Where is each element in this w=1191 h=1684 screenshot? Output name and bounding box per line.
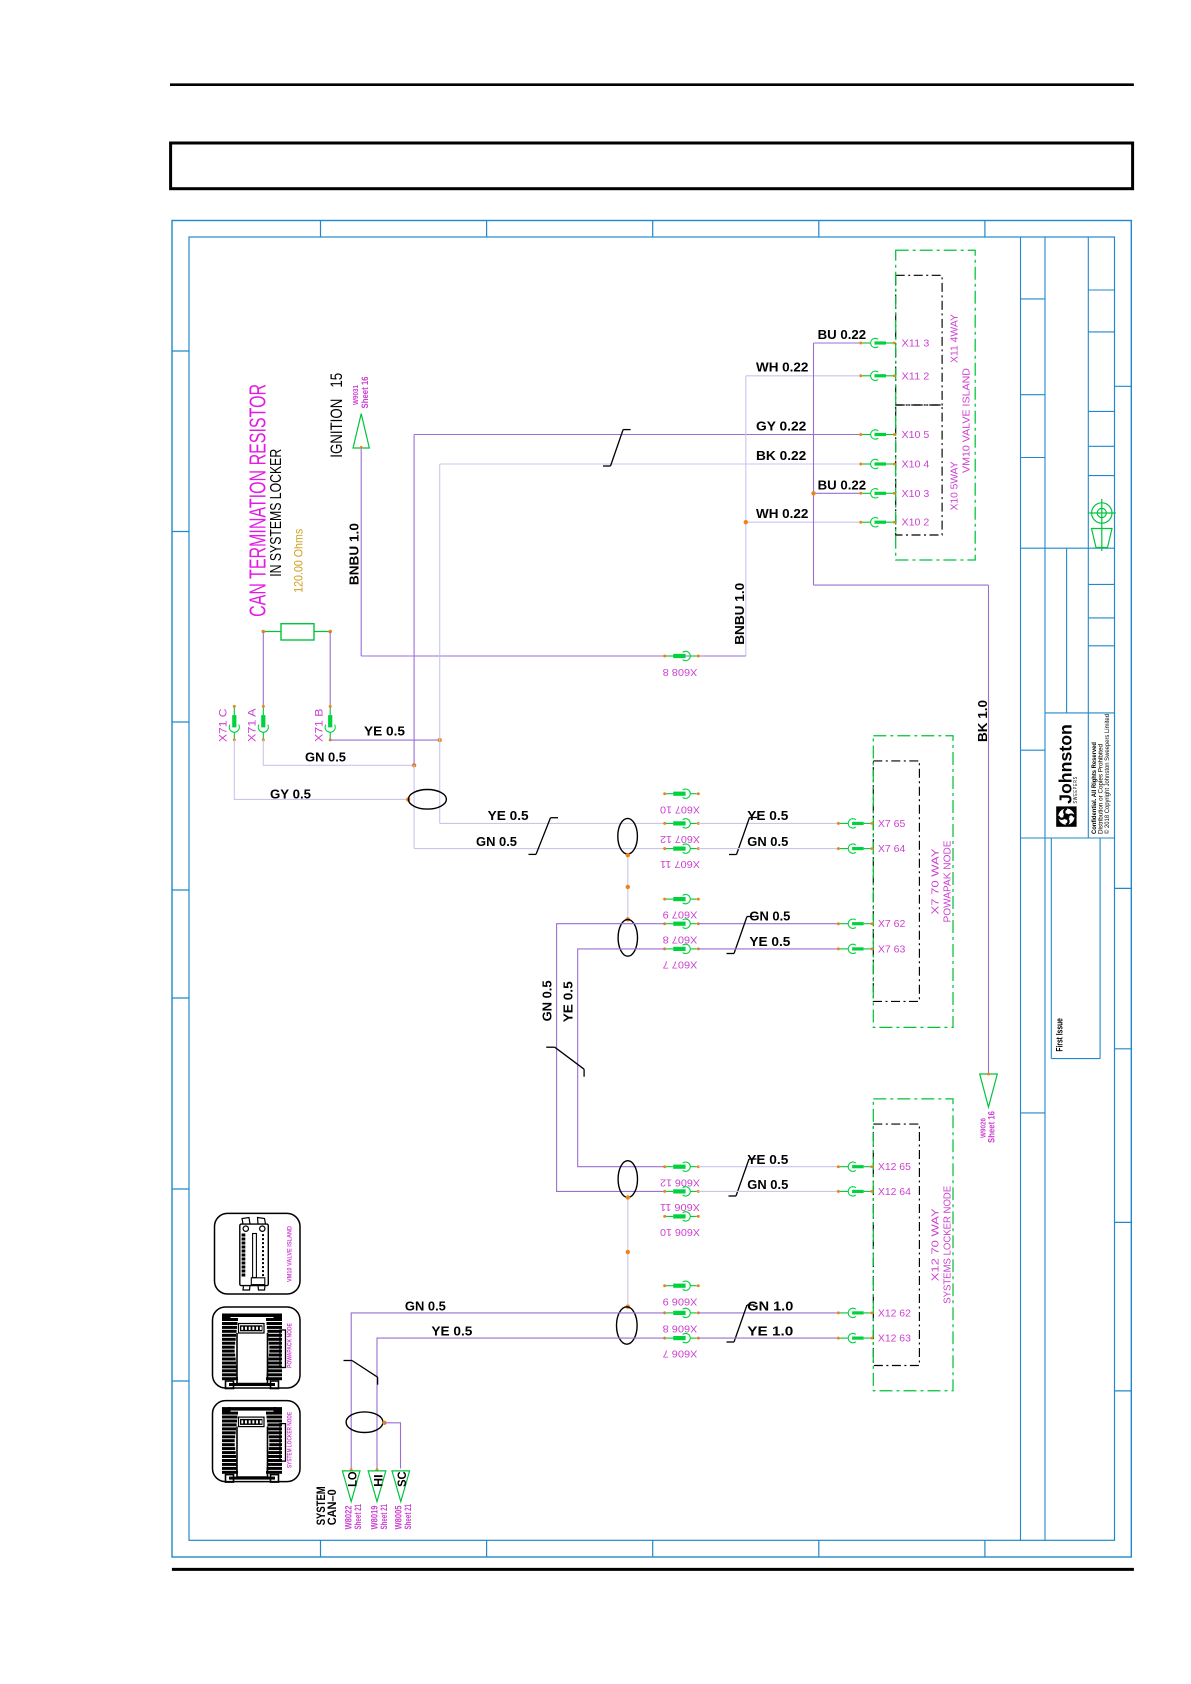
wire GN trunk X7 62 to X12 64 <box>557 924 665 1192</box>
svg-text:YE 0.5: YE 0.5 <box>747 809 788 823</box>
junction dot ignition arrow <box>360 446 363 449</box>
pin X71 A <box>262 705 265 708</box>
wire BU 0.22 to X11 3 <box>814 342 860 344</box>
resistor R termination 120 ohm <box>281 624 314 640</box>
svg-text:GY 0.5: GY 0.5 <box>270 787 311 801</box>
Johnston logo <box>1056 724 1079 827</box>
svg-text:X10 5WAY: X10 5WAY <box>949 461 961 510</box>
shield link E4-E5 <box>627 1198 629 1307</box>
svg-text:YE 0.5: YE 0.5 <box>488 809 529 823</box>
junction dot E6 right <box>382 1421 386 1425</box>
junction dot resistor left <box>262 630 266 634</box>
svg-text:VM10 VALVE ISLAND: VM10 VALVE ISLAND <box>961 368 973 473</box>
svg-text:X10 3: X10 3 <box>902 488 930 500</box>
sheet arrow LO W8022 <box>342 1471 360 1502</box>
svg-text:YE 1.0: YE 1.0 <box>747 1325 793 1339</box>
wire X71 B to resistor <box>329 632 331 706</box>
break symbol at X7 62/63 labels <box>747 916 755 918</box>
junction dot E3 top <box>626 917 630 921</box>
svg-text:WH 0.22: WH 0.22 <box>756 361 808 375</box>
svg-text:SC: SC <box>397 1471 409 1487</box>
svg-text:YE 0.5: YE 0.5 <box>364 724 405 738</box>
junction dot arrow W9026 <box>987 1073 990 1076</box>
svg-text:GY 0.22: GY 0.22 <box>756 419 806 433</box>
splice X607 10 stub <box>663 792 666 795</box>
svg-text:YE 0.5: YE 0.5 <box>431 1325 472 1339</box>
svg-text:Sheet 16: Sheet 16 <box>987 1111 997 1143</box>
svg-text:BU 0.22: BU 0.22 <box>818 328 867 342</box>
svg-text:GN 0.5: GN 0.5 <box>747 835 788 849</box>
svg-text:X71 C: X71 C <box>218 708 230 742</box>
label W8005 Sheet 21 <box>393 1504 413 1530</box>
pin X7 63 <box>837 947 840 950</box>
wire GN 0.5 to X607 11 <box>414 848 665 850</box>
svg-text:W8005: W8005 <box>393 1505 403 1529</box>
resistor lead right <box>314 631 330 633</box>
svg-text:X608 8: X608 8 <box>662 666 697 678</box>
svg-text:LO: LO <box>348 1471 360 1487</box>
svg-text:W9031: W9031 <box>351 385 360 405</box>
svg-text:GN 0.5: GN 0.5 <box>749 910 790 924</box>
svg-text:SYSTEM LOCKER NODE: SYSTEM LOCKER NODE <box>287 1412 294 1468</box>
junction dot resistor right <box>328 630 332 634</box>
svg-text:X12 70 WAY: X12 70 WAY <box>930 1208 942 1281</box>
label W9031 Sheet 16 <box>351 376 370 408</box>
break symbol on GY/BK wires <box>623 429 631 431</box>
pin X7 64 <box>837 847 840 850</box>
wire YE 0.5 to X607 12 <box>440 822 665 824</box>
pin X10 5 <box>859 433 862 436</box>
wire YE X606 12 to X12 65 <box>698 1166 839 1168</box>
svg-text:X606 11: X606 11 <box>660 1201 700 1213</box>
splice X606 7 <box>663 1337 666 1340</box>
svg-text:W8019: W8019 <box>370 1505 380 1529</box>
resistor lead left <box>263 631 281 633</box>
svg-text:X607 12: X607 12 <box>660 833 700 845</box>
pin X10 3 <box>859 492 862 495</box>
wire BU to BK 1.0 run <box>814 584 989 586</box>
svg-text:GN 0.5: GN 0.5 <box>476 835 517 849</box>
pin X71 B <box>329 705 332 708</box>
svg-text:120.00 Ohms: 120.00 Ohms <box>291 529 305 593</box>
splice X606 10 stub <box>663 1215 666 1218</box>
wire GN 1.0 X606 8 to X12 62 <box>698 1312 839 1314</box>
svg-text:CAN–0: CAN–0 <box>325 1489 339 1525</box>
svg-text:© 2018 Copyright Johnston Swee: © 2018 Copyright Johnston Sweepers Limit… <box>1103 714 1111 834</box>
break symbol bottom pair <box>344 1360 353 1362</box>
svg-text:BNBU 1.0: BNBU 1.0 <box>347 523 361 585</box>
connector X11 4WAY box <box>896 275 942 405</box>
junction dot E4 bottom <box>626 1195 630 1199</box>
junction dot WH/X10 2 <box>744 520 748 524</box>
connector X7 powapak node outline <box>873 736 953 1028</box>
shield link E2-E3 <box>627 855 629 920</box>
svg-text:Sheet 21: Sheet 21 <box>403 1504 413 1530</box>
wire BU riser <box>813 343 815 585</box>
junction dot HI arrow <box>376 1468 379 1471</box>
connector X12 systems locker node outline <box>873 1099 953 1391</box>
connector X11/X10 VM10 valve island outline <box>896 250 976 560</box>
wire BNBU 1.0 drop from ignition arrow <box>360 448 362 656</box>
splice X606 9 stub <box>663 1284 666 1287</box>
svg-text:X607 7: X607 7 <box>662 959 697 971</box>
twisted pair ellipse E4 <box>618 1161 637 1198</box>
svg-text:X11 2: X11 2 <box>902 370 930 382</box>
wire YE 0.5 to HI <box>377 1338 665 1468</box>
pin X12 63 <box>837 1337 840 1340</box>
connector X12 70WAY box <box>873 1124 919 1365</box>
svg-text:X10 5: X10 5 <box>902 429 930 441</box>
svg-text:X607 8: X607 8 <box>662 933 697 945</box>
wire SC shield drop <box>384 1423 400 1469</box>
connector X7 70WAY box <box>873 761 919 1002</box>
junction dot E5 top <box>626 1305 630 1309</box>
svg-text:VM10 VALVE ISLAND: VM10 VALVE ISLAND <box>287 1226 294 1282</box>
break symbol at X12 65/64 labels <box>749 1158 757 1160</box>
pin X11 3 <box>859 342 862 345</box>
splice X607 7 <box>663 947 666 950</box>
svg-text:X71 B: X71 B <box>314 709 326 743</box>
break symbol on trunk pair <box>546 1046 555 1048</box>
pin X12 62 <box>837 1311 840 1314</box>
label SYSTEM CAN-0 <box>314 1486 339 1525</box>
svg-text:YE 0.5: YE 0.5 <box>749 935 790 949</box>
splice X606 11 <box>663 1190 666 1193</box>
svg-text:IGNITION 15: IGNITION 15 <box>327 373 346 458</box>
twisted pair ellipse E6 <box>346 1412 383 1433</box>
picture VM10 valve island connector <box>215 1213 301 1294</box>
junction dot GN vertical <box>412 763 416 767</box>
svg-text:POWAPAK NODE: POWAPAK NODE <box>942 841 954 923</box>
wire BNBU 1.0 run <box>361 655 746 657</box>
twisted pair ellipse E2 <box>618 818 638 854</box>
svg-text:X606 12: X606 12 <box>660 1176 700 1188</box>
wire BK 1.0 drop <box>988 585 990 1073</box>
svg-text:BK 0.22: BK 0.22 <box>756 449 806 463</box>
border zone ticks <box>172 221 1131 1558</box>
pin X7 62 <box>837 922 840 925</box>
wire GN 0.5 X607 11 to X7 64 <box>698 848 839 850</box>
svg-text:X10 4: X10 4 <box>902 459 930 471</box>
copyright text <box>1091 714 1111 834</box>
junction dot shield mid <box>626 885 630 889</box>
junction dot LO arrow <box>350 1468 353 1471</box>
wire YE 0.5 from X71 B <box>330 739 440 741</box>
break symbol on YE/GN pair <box>551 817 559 819</box>
pin X12 64 <box>837 1190 840 1193</box>
break symbol at X7 65/64 labels <box>750 817 758 819</box>
junction dot YE vertical <box>438 738 442 742</box>
svg-text:GN 0.5: GN 0.5 <box>541 980 555 1021</box>
svg-text:X12 64: X12 64 <box>878 1186 911 1198</box>
break symbol at X12 62/63 labels <box>747 1304 755 1306</box>
wire WH riser <box>745 376 747 656</box>
sheet arrow W9026 <box>980 1074 998 1107</box>
svg-text:X12 65: X12 65 <box>878 1161 911 1173</box>
svg-text:YE 0.5: YE 0.5 <box>562 981 576 1022</box>
connector X10 5WAY box <box>896 405 942 535</box>
svg-text:X607 9: X607 9 <box>662 909 697 921</box>
sheet border outer <box>172 221 1131 1558</box>
splice X607 12 <box>663 822 666 825</box>
wire YE trunk X7 63 to X12 65 <box>578 949 665 1167</box>
wire GY 0.5 shield from X71 C <box>234 740 406 800</box>
svg-text:X606 8: X606 8 <box>662 1323 697 1335</box>
sheet arrow HI W8019 <box>368 1471 386 1502</box>
svg-text:X11 3: X11 3 <box>902 338 930 350</box>
wire YE 1.0 X606 7 to X12 63 <box>698 1337 839 1339</box>
wire WH 0.22 to X11 2 <box>746 375 860 377</box>
title block grid <box>1021 237 1115 1540</box>
splice X608 8 <box>663 655 666 658</box>
junction dot E2 bottom <box>626 853 630 857</box>
svg-text:BNBU 1.0: BNBU 1.0 <box>733 583 747 645</box>
svg-text:GN 0.5: GN 0.5 <box>405 1299 446 1313</box>
sheet border inner <box>189 237 1115 1540</box>
pin X12 65 <box>837 1165 840 1168</box>
junction dot BU/X10 3 <box>811 491 815 495</box>
twisted pair ellipse E3 <box>618 919 637 956</box>
svg-text:POWAPACK NODE: POWAPACK NODE <box>287 1322 294 1368</box>
splice X606 8 <box>663 1311 666 1314</box>
wire WH 0.22 to X10 2 <box>746 521 860 523</box>
svg-text:X10 2: X10 2 <box>902 517 930 529</box>
empty title bar box <box>171 143 1133 189</box>
svg-text:X7 62: X7 62 <box>878 918 906 930</box>
pin X10 2 <box>859 521 862 524</box>
top rule line <box>170 83 1134 86</box>
svg-text:X12 63: X12 63 <box>878 1333 911 1345</box>
pin X11 2 <box>859 374 862 377</box>
picture SYSTEM LOCKER node connector <box>213 1401 301 1483</box>
wire GY 0.22 to X10 5 <box>414 434 859 436</box>
bottom rule line <box>172 1568 1134 1571</box>
label W8022 Sheet 21 <box>344 1504 364 1530</box>
svg-text:WH 0.22: WH 0.22 <box>756 507 808 521</box>
splice X606 12 <box>663 1165 666 1168</box>
svg-text:First Issue: First Issue <box>1054 1018 1065 1052</box>
svg-text:X606 9: X606 9 <box>662 1295 697 1307</box>
svg-text:X606 10: X606 10 <box>660 1226 700 1238</box>
svg-text:W8022: W8022 <box>344 1505 354 1529</box>
svg-text:X607 10: X607 10 <box>660 803 700 815</box>
wire YE 0.5 X607 7 to X7 63 <box>698 948 839 950</box>
svg-text:Sheet 21: Sheet 21 <box>379 1504 389 1530</box>
svg-text:GN 0.5: GN 0.5 <box>305 750 346 764</box>
sheet arrow SC W8005 <box>392 1471 410 1502</box>
svg-text:GN 0.5: GN 0.5 <box>747 1178 788 1192</box>
svg-text:SWEEPERS: SWEEPERS <box>1073 776 1079 803</box>
wire X71 A to resistor <box>262 632 264 706</box>
svg-text:X7 65: X7 65 <box>878 818 906 830</box>
svg-text:X7 63: X7 63 <box>878 943 906 955</box>
wire CANH riser x440 <box>439 464 441 740</box>
svg-text:Sheet 21: Sheet 21 <box>353 1504 363 1530</box>
wire GN X606 11 to X12 64 <box>698 1190 839 1192</box>
svg-text:X12 62: X12 62 <box>878 1307 911 1319</box>
svg-text:GN 1.0: GN 1.0 <box>747 1299 793 1313</box>
svg-text:IN SYSTEMS LOCKER: IN SYSTEMS LOCKER <box>268 449 285 577</box>
picture POWAPACK node connector <box>213 1307 301 1389</box>
svg-text:BK 1.0: BK 1.0 <box>976 700 990 742</box>
projection symbol <box>1088 499 1116 551</box>
svg-text:CAN TERMINATION RESISTOR: CAN TERMINATION RESISTOR <box>245 384 271 617</box>
wire BK 0.22 to X10 4 <box>440 463 860 465</box>
pin X71 C <box>233 705 236 708</box>
pin X10 4 <box>859 463 862 466</box>
wire GN 0.5 to LO <box>351 1313 665 1469</box>
wire YE 0.5 X607 12 to X7 65 <box>698 822 839 824</box>
junction dot shield ellipse E1 <box>406 797 410 801</box>
svg-text:X11 4WAY: X11 4WAY <box>949 314 961 363</box>
svg-text:HI: HI <box>373 1474 385 1487</box>
svg-text:X606 7: X606 7 <box>662 1348 697 1360</box>
svg-text:X71 A: X71 A <box>247 708 259 742</box>
svg-text:X7 64: X7 64 <box>878 843 906 855</box>
junction dot shield mid 2 <box>626 1250 630 1254</box>
wire CANL riser x414 <box>413 435 415 766</box>
sheet arrow W9031 ignition <box>353 414 369 448</box>
splice X607 11 <box>663 847 666 850</box>
pin X7 65 <box>837 822 840 825</box>
wire GN 0.5 from X71 A <box>263 740 414 765</box>
twisted pair ellipse E1 <box>408 790 446 810</box>
svg-text:X7 70 WAY: X7 70 WAY <box>930 849 942 915</box>
splice X607 8 <box>663 922 666 925</box>
svg-text:BU 0.22: BU 0.22 <box>818 478 867 492</box>
label W9026 Sheet 16 <box>978 1111 996 1143</box>
svg-text:SYSTEMS LOCKER NODE: SYSTEMS LOCKER NODE <box>942 1186 954 1304</box>
svg-text:X607 11: X607 11 <box>660 858 700 870</box>
wire GN 0.5 X607 8 to X7 62 <box>698 923 839 925</box>
svg-text:Sheet 16: Sheet 16 <box>360 376 370 408</box>
svg-text:YE 0.5: YE 0.5 <box>747 1153 788 1167</box>
twisted pair ellipse E5 <box>617 1307 638 1344</box>
wire BU 0.22 to X10 3 <box>814 492 860 494</box>
splice X607 9 stub <box>663 898 666 901</box>
label W8019 Sheet 21 <box>370 1504 390 1530</box>
